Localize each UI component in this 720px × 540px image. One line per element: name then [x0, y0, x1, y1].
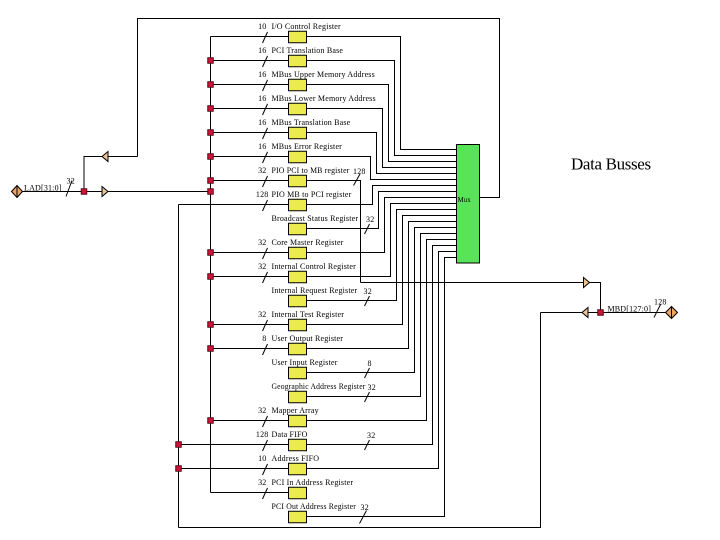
- register R13 Internal Test Register box: [289, 319, 307, 331]
- bus width slash R8 left: [263, 200, 268, 211]
- wire R18 input from MBD bus: [179, 444, 289, 446]
- svg-text:32: 32: [258, 310, 266, 319]
- wire R5 output to mux input 5: [307, 133, 457, 174]
- svg-text:32: 32: [364, 287, 372, 296]
- svg-text:32: 32: [258, 262, 266, 271]
- bus width slash R6 left: [263, 152, 268, 163]
- svg-text:PIO MB to PCI register: PIO MB to PCI register: [272, 190, 352, 199]
- register R21 PCI Out Address Register box: [289, 511, 307, 523]
- wire R15 output to mux input 14: [307, 228, 457, 373]
- svg-text:User Input Register: User Input Register: [272, 358, 338, 367]
- register R6 MBus Error Register box: [289, 151, 307, 163]
- wire R10 input from LAD bus: [211, 252, 289, 254]
- register R14 User Output Register box: [289, 343, 307, 355]
- junction LAD bus at R14: [208, 346, 214, 352]
- svg-text:32: 32: [361, 503, 369, 512]
- svg-text:16: 16: [258, 46, 266, 55]
- arrow MBD readback left: [582, 308, 588, 318]
- junction LAD bus at R5: [208, 130, 214, 136]
- wire R10 output to mux input 9: [307, 198, 457, 253]
- wire R14 input from LAD bus: [211, 348, 289, 350]
- wire MBD port net: [541, 312, 666, 314]
- svg-text:32: 32: [368, 383, 376, 392]
- junction LAD bus at R10: [208, 250, 214, 256]
- wire R17 output to mux input 16: [307, 240, 457, 421]
- register R4 MBus Lower Memory Address box: [289, 103, 307, 115]
- wire R4 input from LAD bus: [211, 108, 289, 110]
- svg-text:10: 10: [258, 22, 266, 31]
- wire MBD drive: mux-side net down to MBD junction: [361, 283, 601, 313]
- svg-text:32: 32: [258, 478, 266, 487]
- register R9 Broadcast Status Register box: [289, 223, 307, 235]
- bus width slash R4 left: [263, 104, 268, 115]
- wire LAD readback riser: [84, 157, 138, 192]
- wire R21 output to mux input 19: [307, 258, 457, 517]
- bus width slash R18 left: [263, 440, 268, 451]
- wire R5 input from LAD bus: [211, 132, 289, 134]
- svg-text:Broadcast Status Register: Broadcast Status Register: [272, 214, 359, 223]
- wire R14 output to mux input 13: [307, 222, 457, 349]
- wire R3 input from LAD bus: [211, 84, 289, 86]
- bus width slash R12 right: [365, 296, 370, 306]
- bus width slash R13 left: [263, 320, 268, 331]
- wire R17 input from LAD bus: [211, 420, 289, 422]
- mux U1: [457, 145, 480, 264]
- svg-text:Mapper Array: Mapper Array: [272, 406, 319, 415]
- register R17 Mapper Array box: [289, 415, 307, 427]
- wire R18 output to mux input 17: [307, 246, 457, 445]
- svg-text:Internal Request Register: Internal Request Register: [272, 286, 358, 295]
- arrow LAD drive right: [102, 187, 108, 197]
- register R18 Data FIFO box: [289, 439, 307, 451]
- svg-text:16: 16: [258, 94, 266, 103]
- register R3 MBus Upper Memory Address box: [289, 79, 307, 91]
- svg-text:PIO PCI to MB register: PIO PCI to MB register: [272, 166, 350, 175]
- svg-text:Geographic Address Register: Geographic Address Register: [272, 382, 366, 391]
- svg-text:Mux: Mux: [458, 196, 472, 204]
- svg-text:Internal Test Register: Internal Test Register: [272, 310, 345, 319]
- svg-text:128: 128: [256, 190, 269, 199]
- wire bus LADbus vertical (x=210.5): [210, 37, 212, 493]
- wire R16 output to mux input 15: [307, 234, 457, 397]
- wire R19 output to mux input 18: [307, 252, 457, 469]
- arrow LAD readback left: [102, 152, 108, 162]
- svg-text:128: 128: [654, 298, 667, 307]
- bus width slash R7 left: [263, 176, 268, 187]
- svg-text:16: 16: [258, 118, 266, 127]
- register R1 I/O Control Register box: [289, 31, 307, 43]
- wire R1 input from LAD bus: [211, 36, 289, 38]
- register R10 Core Master Register box: [289, 247, 307, 259]
- junction MBD port node: [598, 310, 604, 316]
- svg-text:32: 32: [67, 177, 75, 186]
- bus width slash R9 right: [365, 224, 370, 234]
- svg-text:Internal Control Register: Internal Control Register: [272, 262, 357, 271]
- bus width slash R2 left: [263, 56, 268, 67]
- register R8 PIO MB to PCI register box: [289, 199, 307, 211]
- junction LAD bus at R13: [208, 322, 214, 328]
- arrow MBD drive right: [584, 278, 590, 288]
- wire R7 output down to MBD drive line: [307, 181, 361, 283]
- junction LAD bus at R2: [208, 58, 214, 64]
- svg-text:I/O Control Register: I/O Control Register: [272, 22, 342, 31]
- wire R2 output to mux input 2: [307, 61, 457, 156]
- bus width slash R21 right: [360, 511, 367, 524]
- svg-text:Core Master Register: Core Master Register: [272, 238, 344, 247]
- wire MBD bottom return: bus to MBD port: [179, 313, 541, 528]
- port MBD[127:0] diamond: [666, 307, 678, 319]
- wire R11 input from LAD bus: [211, 276, 289, 278]
- bus width slash R18 right: [365, 440, 370, 450]
- wire R8 input from MBD bus: [179, 204, 289, 206]
- svg-text:MBD[127:0]: MBD[127:0]: [608, 305, 652, 314]
- svg-text:32: 32: [258, 166, 266, 175]
- wire R6 input from LAD bus: [211, 156, 289, 158]
- bus width slash R1 left: [263, 32, 268, 43]
- wire R19 input from MBD bus: [179, 468, 289, 470]
- wire R2 input from LAD bus: [211, 60, 289, 62]
- wire R20 input from LAD bus: [211, 492, 289, 494]
- junction LAD readback tap: [81, 189, 87, 195]
- wire R8 output to mux input 7: [307, 186, 457, 205]
- svg-text:32: 32: [367, 431, 375, 440]
- svg-text:PCI In Address Register: PCI In Address Register: [272, 478, 354, 487]
- register R16 Geographic Address Register box: [289, 391, 307, 403]
- svg-text:MBus Translation Base: MBus Translation Base: [272, 118, 351, 127]
- bus width slash LAD 32: [66, 181, 72, 197]
- bus width slash R10 left: [263, 248, 268, 259]
- svg-text:128: 128: [353, 167, 366, 176]
- wire R1 output to mux input 1: [307, 37, 457, 150]
- wire bus MBDbus vertical (x=178.5): [178, 205, 180, 528]
- port LAD[31:0] diamond: [12, 186, 23, 198]
- junction LAD bus at R7: [208, 178, 214, 184]
- bus width slash R19 left: [263, 464, 268, 475]
- wire R9 output to mux input 8: [307, 192, 457, 229]
- wire R12 output to mux input 11: [307, 210, 457, 301]
- svg-text:LAD[31:0]: LAD[31:0]: [24, 184, 62, 193]
- bus width slash R15 right: [365, 368, 370, 378]
- register R2 PCI Translation Base box: [289, 55, 307, 67]
- junction LAD bus at R17: [208, 418, 214, 424]
- svg-text:16: 16: [258, 142, 266, 151]
- register R12 Internal Request Register box: [289, 295, 307, 307]
- bus width slash R16 right: [365, 392, 370, 402]
- wire R6 output to mux input 6: [307, 157, 457, 180]
- svg-text:10: 10: [258, 454, 266, 463]
- wire LAD input net: port to bus: [23, 191, 211, 193]
- svg-text:PCI Translation Base: PCI Translation Base: [272, 46, 344, 55]
- register R5 MBus Translation Base box: [289, 127, 307, 139]
- svg-text:MBus Upper Memory Address: MBus Upper Memory Address: [272, 70, 375, 79]
- junction MBD bus at R18: [176, 442, 182, 448]
- bus width slash R20 left: [263, 488, 268, 499]
- svg-text:8: 8: [368, 359, 372, 368]
- bus width slash R5 left: [263, 128, 268, 139]
- register R15 User Input Register box: [289, 367, 307, 379]
- svg-text:Data Busses: Data Busses: [571, 155, 651, 174]
- svg-text:8: 8: [262, 334, 266, 343]
- register R11 Internal Control Register box: [289, 271, 307, 283]
- wire R4 output to mux input 4: [307, 109, 457, 168]
- junction LAD bus at R6: [208, 154, 214, 160]
- svg-text:128: 128: [256, 430, 269, 439]
- svg-text:PCI Out Address Register: PCI Out Address Register: [272, 502, 357, 511]
- junction LAD bus at R11: [208, 274, 214, 280]
- svg-text:User Output Register: User Output Register: [272, 334, 344, 343]
- svg-text:32: 32: [366, 215, 374, 224]
- junction LAD bus at R4: [208, 106, 214, 112]
- svg-text:MBus Lower Memory Address: MBus Lower Memory Address: [272, 94, 376, 103]
- register R20 PCI In Address Register box: [289, 487, 307, 499]
- wire mux output loop: up and over the top to LAD: [138, 19, 500, 198]
- wire R13 output to mux input 12: [307, 216, 457, 325]
- bus width slash R17 left: [263, 416, 268, 427]
- bus width slash R11 left: [263, 272, 268, 283]
- junction LAD bus at R3: [208, 82, 214, 88]
- bus width slash R7 right: [354, 174, 361, 186]
- wire R3 output to mux input 3: [307, 85, 457, 162]
- svg-text:Address FIFO: Address FIFO: [272, 454, 320, 463]
- svg-text:32: 32: [258, 406, 266, 415]
- junction LAD bus at LAD entry: [208, 189, 214, 195]
- svg-text:16: 16: [258, 70, 266, 79]
- bus width slash R14 left: [263, 344, 268, 355]
- wire R13 input from LAD bus: [211, 324, 289, 326]
- bus width slash MBD 128: [654, 305, 661, 318]
- register R7 PIO PCI to MB register box: [289, 175, 307, 187]
- wire R7 input from LAD bus: [211, 180, 289, 182]
- svg-text:MBus Error Register: MBus Error Register: [272, 142, 343, 151]
- svg-text:Data FIFO: Data FIFO: [272, 430, 308, 439]
- wire R11 output to mux input 10: [307, 204, 457, 277]
- junction MBD bus at R19: [176, 466, 182, 472]
- svg-text:32: 32: [258, 238, 266, 247]
- bus width slash R3 left: [263, 80, 268, 91]
- register R19 Address FIFO box: [289, 463, 307, 475]
